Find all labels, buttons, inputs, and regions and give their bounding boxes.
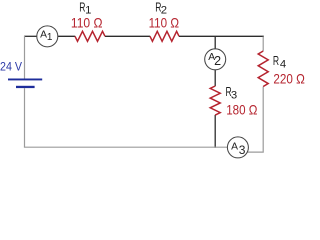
wire R1 to R2 (105, 35, 150, 37)
resistor R4 zigzag (258, 51, 268, 87)
label R3 (226, 84, 238, 102)
wire R2 to top-right corner (179, 35, 264, 37)
wire A1 to R1 (58, 35, 75, 37)
wire junction node to A2 (214, 36, 216, 49)
resistor R2 zigzag (150, 31, 179, 41)
svg-text:A: A (231, 141, 238, 152)
label A3 (231, 141, 246, 157)
label A2 (208, 52, 221, 68)
svg-text:1: 1 (85, 4, 91, 16)
svg-text:4: 4 (280, 58, 286, 70)
wire left vertical above battery (24, 36, 26, 79)
battery bottom plate (short) (16, 86, 35, 88)
label A1 (40, 29, 53, 43)
label R4 (273, 53, 286, 71)
ammeter A1 circle (37, 26, 58, 47)
svg-text:R: R (273, 53, 279, 68)
wire left vertical below battery (24, 88, 26, 147)
battery top plate (long) (8, 79, 42, 81)
svg-text:180 Ω: 180 Ω (226, 103, 257, 118)
label R2 (155, 0, 167, 17)
svg-text:3: 3 (231, 89, 237, 101)
svg-text:3: 3 (239, 143, 246, 157)
wire R4 to top-right corner (262, 37, 264, 52)
resistor R3 zigzag (210, 86, 220, 115)
svg-text:24 V: 24 V (0, 61, 22, 74)
wire R3 to bottom wire (214, 115, 216, 148)
wire top-left stub to A1 (24, 35, 37, 37)
label R1 (79, 0, 91, 16)
svg-text:1: 1 (47, 32, 53, 43)
wire A3 right to bottom-right corner and up to R4 (248, 87, 264, 153)
wire bottom horizontal (24, 146, 228, 148)
svg-text:220 Ω: 220 Ω (273, 71, 304, 86)
wire A2 to R3 (214, 70, 216, 86)
svg-text:110 Ω: 110 Ω (71, 16, 103, 31)
ammeter A2 circle (205, 49, 226, 70)
resistor R1 zigzag (75, 31, 105, 41)
ammeter A3 circle (227, 137, 248, 158)
svg-text:110 Ω: 110 Ω (149, 15, 179, 30)
svg-text:2: 2 (214, 54, 221, 68)
